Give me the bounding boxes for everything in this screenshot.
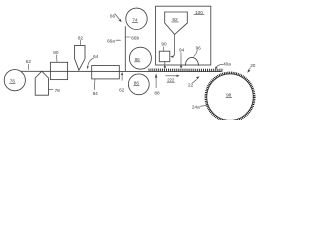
svg-text:78: 78 bbox=[55, 88, 61, 93]
pipe 92 to 90 bbox=[171, 35, 175, 57]
svg-text:86: 86 bbox=[135, 57, 141, 62]
label 76 bbox=[10, 78, 16, 83]
drum 98 teeth bbox=[206, 73, 255, 122]
label 64 leader bbox=[88, 58, 94, 66]
wire film 66 bbox=[124, 27, 126, 72]
label 74 bbox=[132, 18, 138, 23]
label 100 bbox=[195, 10, 203, 15]
svg-text:96: 96 bbox=[196, 45, 202, 50]
label 94 arrow bbox=[179, 48, 185, 53]
svg-text:22: 22 bbox=[188, 83, 194, 88]
dome 96 bbox=[185, 57, 198, 65]
svg-text:64: 64 bbox=[93, 54, 99, 59]
hopper 92 bbox=[165, 12, 188, 34]
roller 76 bbox=[4, 70, 25, 91]
label 66b bbox=[125, 36, 130, 38]
nip roller 86 lower bbox=[128, 74, 149, 95]
svg-text:40a: 40a bbox=[223, 61, 231, 66]
svg-text:24a: 24a bbox=[192, 105, 200, 110]
svg-text:62: 62 bbox=[26, 59, 32, 64]
svg-text:88: 88 bbox=[154, 90, 160, 95]
label 98 bbox=[226, 92, 232, 97]
svg-text:92: 92 bbox=[172, 17, 178, 22]
pump box 90 bbox=[159, 51, 170, 62]
hopper 82 bbox=[75, 45, 85, 70]
svg-text:100: 100 bbox=[195, 10, 203, 15]
svg-text:66a: 66a bbox=[107, 38, 115, 43]
svg-text:80: 80 bbox=[53, 50, 59, 55]
applicator 78 bbox=[35, 71, 48, 95]
svg-text:94: 94 bbox=[179, 48, 185, 53]
svg-text:222: 222 bbox=[167, 77, 175, 82]
label 80 bbox=[53, 50, 59, 55]
nip roller 86 upper bbox=[129, 47, 151, 69]
svg-text:74: 74 bbox=[132, 18, 138, 23]
box 100 bbox=[156, 6, 211, 65]
label 20 arrow bbox=[250, 63, 256, 68]
label 92 bbox=[172, 17, 178, 22]
label 66a bbox=[107, 38, 115, 43]
pipe 90 to web bbox=[164, 62, 166, 66]
label 62 arrow mid bbox=[121, 75, 123, 81]
label 40a bbox=[223, 61, 231, 66]
svg-text:66: 66 bbox=[110, 14, 116, 19]
label 22 arrow bbox=[188, 83, 194, 88]
label 96 bbox=[196, 45, 202, 50]
svg-text:90: 90 bbox=[161, 42, 167, 47]
wire web line 62 bbox=[21, 70, 222, 72]
label 90 bbox=[161, 42, 167, 47]
label 62 left bbox=[26, 59, 32, 64]
label 24a bbox=[192, 105, 200, 110]
label 88 arrow bbox=[154, 90, 160, 95]
svg-text:62: 62 bbox=[119, 87, 125, 92]
label 66 arrow bbox=[110, 14, 116, 19]
svg-text:76: 76 bbox=[10, 78, 16, 83]
svg-text:84: 84 bbox=[93, 91, 99, 96]
svg-text:98: 98 bbox=[226, 92, 232, 97]
label 84 bbox=[93, 91, 99, 96]
label 78 bbox=[49, 88, 53, 90]
svg-text:66b: 66b bbox=[131, 35, 139, 40]
svg-text:20: 20 bbox=[250, 63, 256, 68]
coated web hatch 222 bbox=[149, 69, 224, 72]
label 222 bbox=[166, 75, 177, 77]
drum 98 body bbox=[207, 74, 253, 120]
film roll 74 bbox=[126, 8, 147, 29]
box 84 bbox=[92, 66, 120, 79]
svg-text:86: 86 bbox=[134, 80, 140, 85]
svg-text:82: 82 bbox=[78, 35, 84, 40]
box 80 bbox=[50, 62, 67, 79]
label 82 bbox=[78, 35, 84, 40]
